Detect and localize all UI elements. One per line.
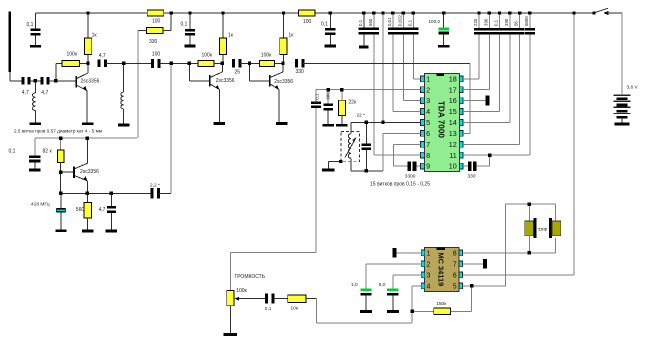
wire	[476, 165, 489, 167]
wire pin11 to cap	[463, 154, 530, 156]
capacitor 0.1 wiper	[265, 294, 268, 304]
wire pin6	[383, 132, 421, 134]
capacitor plates	[398, 28, 408, 31]
ground	[82, 230, 93, 233]
svg-text:390: 390	[504, 18, 509, 26]
wire U2 pin2	[366, 263, 421, 265]
wire	[363, 34, 365, 45]
node	[508, 11, 511, 14]
capacitor plates	[311, 101, 321, 104]
node	[488, 11, 491, 14]
capacitor plates	[525, 28, 535, 31]
wire to Q1 base	[49, 80, 76, 82]
node	[339, 160, 342, 163]
svg-text:2sc3356: 2sc3356	[216, 78, 235, 84]
wire	[229, 306, 231, 333]
node	[282, 11, 285, 14]
svg-text:2sc3356: 2sc3356	[274, 79, 293, 85]
wire down to pin	[519, 35, 521, 145]
svg-text:0,01: 0,01	[387, 17, 392, 26]
node	[110, 192, 113, 195]
node	[381, 11, 384, 14]
capacitor plates	[362, 143, 372, 146]
resistor 1k stage3	[283, 13, 285, 38]
capacitor plates	[484, 28, 494, 31]
node	[372, 11, 375, 14]
ground Q3 emitter	[276, 122, 287, 125]
resistor 100 rail stage3 feed	[298, 10, 315, 16]
wire audio to volume pot	[315, 108, 317, 252]
ground Q1 emitter	[82, 122, 93, 125]
svg-text:4,7: 4,7	[41, 90, 48, 96]
svg-text:3300: 3300	[405, 173, 416, 179]
ground	[224, 333, 238, 336]
trimmer arrow	[345, 138, 356, 158]
svg-text:MC 34119: MC 34119	[436, 252, 445, 286]
wire U2 pin1 stub	[396, 252, 421, 254]
svg-text:1: 1	[426, 74, 430, 83]
capacitor 0.1 audio coupling	[315, 90, 317, 102]
wire pin8	[374, 154, 421, 156]
node collector stage2	[221, 62, 224, 65]
inductor shunt coil 2	[123, 63, 125, 92]
svg-text:25: 25	[235, 70, 241, 76]
terminal pin7	[483, 259, 487, 269]
capacitor plates	[494, 28, 504, 31]
wire	[555, 204, 557, 221]
node collector stage1	[86, 62, 89, 65]
node	[362, 11, 365, 14]
node	[86, 192, 89, 195]
svg-text:15 витков пров 0,15 - 0,25: 15 витков пров 0,15 - 0,25	[370, 181, 430, 187]
wire	[443, 34, 445, 44]
node	[248, 62, 251, 65]
svg-text:390: 390	[483, 18, 488, 26]
svg-text:ГРОМКОСТЬ: ГРОМКОСТЬ	[235, 274, 266, 280]
U1 pins	[421, 76, 425, 82]
node	[518, 11, 521, 14]
capacitor plates	[185, 29, 195, 32]
wire	[621, 118, 623, 123]
svg-text:13: 13	[449, 129, 457, 138]
svg-text:1: 1	[427, 250, 431, 257]
ground	[106, 230, 117, 233]
node	[365, 121, 368, 124]
svg-text:560: 560	[76, 207, 85, 213]
transistor Q4 2sc3356 oscillator	[73, 167, 75, 178]
wire U2 pin8 to speaker	[463, 252, 556, 254]
ground tank	[322, 168, 335, 171]
resistor 100k stage2	[188, 63, 190, 80]
wire U2 pin5 to speaker	[463, 285, 506, 287]
wire pin9 cap3300	[394, 165, 408, 167]
wire tank to pin6	[382, 133, 384, 170]
capacitor 5.0	[387, 289, 398, 292]
capacitor 3300	[408, 161, 412, 171]
capacitor plates	[408, 28, 418, 31]
capacitor 100.0 electrolytic	[443, 13, 445, 28]
capacitor 0.1 rail bypass 2	[189, 13, 191, 29]
wire pin16 stub	[463, 100, 486, 102]
ground Q2 emitter	[214, 122, 225, 125]
wire	[329, 35, 331, 45]
capacitor 390 to TDA pin	[488, 13, 490, 28]
ground	[184, 45, 195, 48]
svg-text:3: 3	[426, 96, 430, 105]
resistor 330 osc feed	[147, 28, 164, 34]
svg-text:11: 11	[449, 151, 456, 160]
capacitor 330 coupling to TDA	[295, 59, 298, 67]
ground	[30, 45, 41, 48]
wire	[240, 62, 259, 64]
wire	[392, 296, 394, 311]
wire	[528, 236, 530, 253]
wire	[34, 162, 36, 168]
node	[54, 79, 57, 82]
capacitor plates	[325, 28, 335, 31]
svg-text:5: 5	[453, 283, 457, 290]
svg-text:0,1: 0,1	[27, 22, 34, 28]
wire down to pin	[509, 35, 511, 112]
wire pin1 to cap 0.1	[413, 78, 420, 80]
svg-text:10: 10	[449, 162, 457, 171]
node	[498, 11, 501, 14]
node	[411, 310, 414, 313]
svg-text:220: 220	[473, 18, 478, 26]
svg-text:7: 7	[453, 261, 457, 268]
svg-text:418 МГц: 418 МГц	[31, 202, 50, 208]
resistor 82k osc	[60, 138, 62, 150]
node pin11 junction	[488, 154, 491, 157]
node	[59, 192, 62, 195]
svg-text:0,1: 0,1	[358, 19, 363, 26]
node rail R1k-1	[86, 11, 89, 14]
svg-text:16: 16	[449, 96, 457, 105]
capacitor 4.7 coupling s1-s2	[98, 60, 101, 68]
capacitor 6800 to TDA pin	[529, 13, 531, 28]
svg-text:2: 2	[427, 261, 431, 268]
svg-text:2sc3356: 2sc3356	[80, 169, 99, 175]
wire tank top to pin5	[351, 121, 421, 123]
capacitor tank	[365, 122, 367, 143]
svg-text:2,2 *: 2,2 *	[150, 182, 160, 188]
svg-text:2.5 витка пров 0.57 диаметр ка: 2.5 витка пров 0.57 диаметр кат 4 - 5 мм	[14, 129, 102, 134]
resistor 100k stage3	[260, 60, 275, 66]
capacitor plates	[505, 28, 515, 31]
resistor 1k stage1	[87, 13, 89, 38]
svg-text:18: 18	[449, 74, 457, 83]
wire	[110, 213, 112, 230]
svg-text:9: 9	[426, 162, 430, 171]
capacitor plates	[323, 104, 333, 107]
antenna	[9, 12, 11, 73]
ground	[30, 122, 41, 125]
wire U2 pin4	[412, 285, 421, 287]
svg-text:5: 5	[426, 118, 430, 127]
svg-text:17: 17	[449, 85, 457, 94]
capacitor 25 coupling	[232, 59, 235, 67]
node	[188, 62, 191, 65]
svg-text:6800: 6800	[524, 16, 529, 26]
svg-text:1к: 1к	[288, 32, 294, 38]
capacitor 390 to TDA pin	[509, 13, 511, 28]
resonator 418MHz	[60, 193, 62, 208]
node	[340, 88, 343, 91]
node	[412, 11, 415, 14]
wire wiper	[242, 298, 266, 300]
svg-text:4,7: 4,7	[99, 53, 106, 59]
svg-text:2: 2	[426, 85, 430, 94]
svg-text:4: 4	[426, 107, 430, 116]
capacitor 0.01 to pin4	[392, 13, 394, 28]
capacitor 0.022 to pin3	[402, 13, 404, 28]
wire RF to TDA pin13	[303, 62, 470, 64]
inductor tank coil	[350, 122, 352, 133]
svg-text:330: 330	[468, 174, 476, 180]
svg-text:0,1: 0,1	[181, 21, 188, 27]
capacitor 220 to TDA pin	[478, 13, 480, 28]
variable inductor dashed box	[341, 131, 360, 161]
node	[402, 11, 405, 14]
wire antenna lead	[9, 72, 11, 81]
ground	[387, 310, 399, 313]
op-amp U2 MC34119 body	[425, 247, 459, 291]
svg-text:14: 14	[449, 118, 457, 127]
pot wiper arrow	[236, 298, 242, 300]
ground	[438, 45, 449, 48]
wire osc emitter line	[61, 192, 152, 194]
wire pin5	[382, 121, 384, 123]
capacitor plates	[29, 155, 40, 158]
wire	[528, 204, 530, 221]
svg-text:0,1: 0,1	[407, 19, 412, 26]
svg-text:1к: 1к	[92, 33, 98, 39]
svg-text:560: 560	[368, 18, 373, 26]
svg-text:0,1: 0,1	[9, 149, 16, 155]
wire down to pin	[478, 35, 480, 79]
node	[59, 171, 62, 174]
capacitor plates green	[439, 28, 449, 31]
capacitor 2.2 osc output	[150, 188, 153, 199]
capacitor plates	[474, 28, 484, 31]
wire	[35, 36, 37, 45]
wire down to pin 3	[402, 34, 404, 100]
svg-text:6: 6	[426, 129, 430, 138]
svg-text:10к: 10к	[291, 305, 299, 311]
svg-text:100к: 100к	[236, 288, 247, 294]
node	[391, 11, 394, 14]
node collector stage3	[281, 62, 284, 65]
svg-text:15: 15	[449, 107, 457, 116]
svg-text:5,0: 5,0	[379, 282, 386, 288]
svg-text:680: 680	[326, 92, 331, 100]
svg-text:4,7: 4,7	[22, 90, 29, 96]
resistor 100k stage1	[55, 63, 57, 80]
svg-text:7: 7	[426, 140, 430, 149]
node	[477, 11, 480, 14]
resistor 100 rail stage2 feed	[147, 10, 164, 16]
wire osc injection riser	[170, 63, 172, 193]
ground	[336, 124, 347, 127]
svg-text:TDA 7000: TDA 7000	[436, 101, 445, 138]
svg-text:100к: 100к	[67, 51, 78, 57]
svg-text:22к: 22к	[348, 99, 357, 105]
capacitor 560 to pin8	[373, 13, 375, 28]
capacitor plates	[388, 28, 398, 31]
wire pin10 cap330	[463, 165, 468, 167]
wire down to pin 4	[392, 34, 394, 111]
node	[327, 88, 330, 91]
svg-text:22 *: 22 *	[357, 113, 366, 119]
svg-text:8: 8	[453, 250, 457, 257]
wire U2 pin7 stub	[463, 263, 484, 265]
wire rail to MC34119 pin6	[573, 13, 575, 275]
wire 10k to MC pin4 node	[306, 298, 316, 300]
wire pin4 to cap 0.01	[393, 111, 421, 113]
wire cap560 down to pin 8	[373, 34, 375, 155]
capacitor plates	[107, 206, 116, 209]
wire pin17 to cap	[463, 89, 489, 91]
capacitor plates	[359, 28, 369, 31]
node	[442, 11, 445, 14]
wire	[327, 110, 329, 123]
wire rail to TDA pin5	[382, 13, 384, 122]
capacitor 0.1 top row	[363, 13, 365, 28]
capacitor 0,1 to TDA pin	[499, 13, 501, 28]
resistor 560 osc emitter	[87, 193, 89, 202]
capacitor 4.7 antenna b	[40, 77, 43, 84]
svg-text:4,7: 4,7	[99, 207, 106, 213]
svg-text:56: 56	[514, 21, 519, 26]
capacitor 330 pin10	[468, 161, 471, 171]
wire	[159, 192, 171, 194]
wire pin15 to cap	[463, 111, 499, 113]
wire pin2 audio out	[316, 89, 421, 91]
wire battery	[621, 13, 623, 94]
wire tank ground	[327, 162, 329, 169]
U2 pins	[421, 250, 425, 256]
junction dots overlay	[86, 11, 89, 14]
node	[528, 11, 531, 14]
wire tank bottom	[351, 170, 383, 172]
svg-text:100к: 100к	[261, 53, 272, 59]
wire pin12 to cap	[463, 143, 519, 145]
terminal pin1	[393, 248, 397, 258]
ground	[323, 124, 334, 127]
node	[122, 62, 125, 65]
svg-text:100: 100	[152, 19, 161, 25]
resistor 22k	[341, 90, 343, 101]
node	[34, 79, 37, 82]
svg-text:0,022: 0,022	[397, 14, 402, 26]
wire	[416, 165, 420, 167]
svg-text:100: 100	[303, 19, 312, 25]
wire pin3 to cap 0.022	[403, 100, 420, 102]
svg-text:100: 100	[152, 52, 161, 58]
ground	[55, 229, 66, 232]
wire pin14 to cap	[463, 121, 510, 123]
ground	[360, 310, 372, 313]
svg-text:150к: 150к	[436, 301, 447, 307]
node osc injection	[170, 62, 173, 65]
terminal pin16	[486, 96, 490, 106]
node	[528, 203, 531, 206]
wire	[274, 298, 288, 300]
node	[365, 169, 368, 172]
wire down to pin	[499, 35, 501, 101]
wire down to pin 1	[412, 34, 414, 78]
transistor Q2 2sc3356	[209, 75, 211, 86]
capacitor 1.0	[360, 289, 371, 292]
capacitor 0.1 rail bypass 1	[35, 13, 37, 29]
speaker element right	[549, 218, 552, 238]
ground	[325, 45, 336, 48]
wire speaker top	[505, 203, 555, 205]
svg-text:100,0: 100,0	[429, 19, 441, 24]
node	[470, 284, 473, 287]
svg-text:0,1: 0,1	[314, 93, 319, 100]
switch	[592, 11, 595, 14]
svg-text:0,1: 0,1	[321, 21, 328, 27]
wire down to pin	[529, 35, 531, 156]
wire	[159, 62, 198, 64]
node	[59, 137, 62, 140]
node rail-pin5 junction	[381, 121, 384, 124]
svg-text:4: 4	[427, 283, 431, 290]
ground battery	[615, 123, 630, 126]
svg-text:ТЛФ: ТЛФ	[538, 227, 548, 233]
capacitor 0.1 osc bypass	[34, 138, 36, 155]
node	[528, 251, 531, 254]
transistor Q3 2sc3356	[269, 75, 271, 86]
wire 330 to osc rail	[137, 31, 139, 139]
node	[329, 11, 332, 14]
ground	[359, 46, 369, 49]
capacitor 56 to TDA pin	[519, 13, 521, 28]
svg-text:2sc3356: 2sc3356	[81, 78, 100, 84]
node rail 330	[170, 11, 173, 14]
wire to Q4 base	[61, 171, 73, 173]
svg-text:1,0: 1,0	[351, 282, 358, 288]
wire	[30, 80, 41, 82]
node	[572, 11, 575, 14]
wire U2 pin3	[393, 274, 421, 276]
wire	[365, 150, 367, 171]
node	[221, 11, 224, 14]
capacitor 0.1 to pin1	[412, 13, 414, 28]
wire main supply rail	[36, 12, 595, 14]
wire	[189, 36, 191, 45]
op-amp U1 TDA7000 body	[424, 73, 459, 171]
wire	[365, 296, 367, 311]
svg-text:330: 330	[149, 39, 158, 45]
capacitor 4.7 antenna a	[21, 77, 24, 84]
capacitor 4.7 osc	[110, 193, 112, 206]
battery 3.6V	[614, 95, 631, 96]
wire pin7	[394, 143, 421, 145]
resistor 150k feedback	[412, 310, 434, 312]
capacitor 0.1 rail bypass 3	[329, 13, 331, 28]
inductor matching coil	[34, 81, 36, 93]
svg-text:3: 3	[427, 272, 431, 279]
capacitor 100 coupling	[151, 59, 154, 68]
wire osc supply line	[35, 137, 137, 139]
speaker element left	[525, 221, 534, 236]
wire pin18 to cap	[463, 78, 479, 80]
wire pin13 RF in	[463, 132, 470, 134]
potentiometer 100k	[227, 291, 234, 306]
svg-text:1к: 1к	[228, 32, 234, 38]
